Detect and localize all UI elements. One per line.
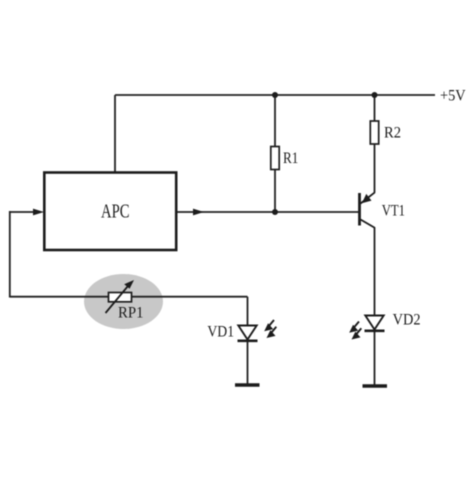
wire VT1 collector to VD2 — [374, 228, 376, 316]
VT1 base bar — [358, 193, 361, 226]
wire VD2 cathode to ground — [374, 331, 376, 385]
resistor R1 — [271, 147, 279, 170]
wire APC top to rail — [114, 95, 116, 173]
wire R2 bottom to VT1 emitter — [374, 144, 376, 193]
svg-text:VT1: VT1 — [382, 202, 405, 219]
wire VD1 cathode to ground — [247, 341, 249, 385]
VD1 incoming light arrows — [269, 320, 277, 333]
resistor R2 — [370, 121, 378, 144]
potentiometer RP1 wiper arrow — [106, 286, 129, 313]
wire bottom horizontal through RP1 — [10, 296, 248, 298]
wire input left horizontal into APC — [10, 211, 38, 213]
svg-text:R2: R2 — [384, 124, 401, 141]
wire feedback left vertical — [9, 211, 11, 298]
svg-text:VD2: VD2 — [393, 311, 421, 328]
node junction on rail at R2 — [372, 92, 378, 98]
potentiometer RP1 highlight ellipse — [84, 274, 163, 329]
svg-text:VD1: VD1 — [207, 323, 234, 340]
svg-text:R1: R1 — [283, 150, 298, 167]
ground below VD1 — [235, 383, 260, 386]
transistor VT1 (PNP) — [360, 192, 375, 228]
VT1 collector diagonal — [361, 220, 375, 228]
wire R1 bottom to node — [274, 170, 276, 213]
VD2 emitted light arrows — [349, 322, 361, 340]
wire VD1 anode drop — [247, 297, 249, 326]
wire +5V top rail — [115, 94, 435, 96]
arrow on APC output wire — [193, 209, 204, 216]
arrow into APC input — [33, 209, 44, 216]
svg-text:RP1: RP1 — [118, 305, 144, 322]
VT1 emitter diagonal — [361, 192, 375, 203]
node junction on rail at R1 — [272, 92, 278, 98]
svg-text:APC: APC — [101, 202, 130, 223]
wire R2 top — [374, 95, 376, 121]
wire APC output to VT1 base — [176, 211, 359, 213]
ground below VD2 — [363, 384, 388, 387]
LED VD2 — [365, 316, 385, 331]
svg-text:+5V: +5V — [440, 88, 466, 105]
VT1 emitter arrow (PNP, points to base) — [362, 194, 372, 203]
op-amp block APC — [44, 173, 176, 251]
photodiode VD1 — [238, 326, 258, 341]
wire R1 top — [274, 95, 276, 147]
node junction R1 bottom on base wire — [272, 209, 278, 215]
potentiometer RP1 body — [109, 293, 132, 302]
